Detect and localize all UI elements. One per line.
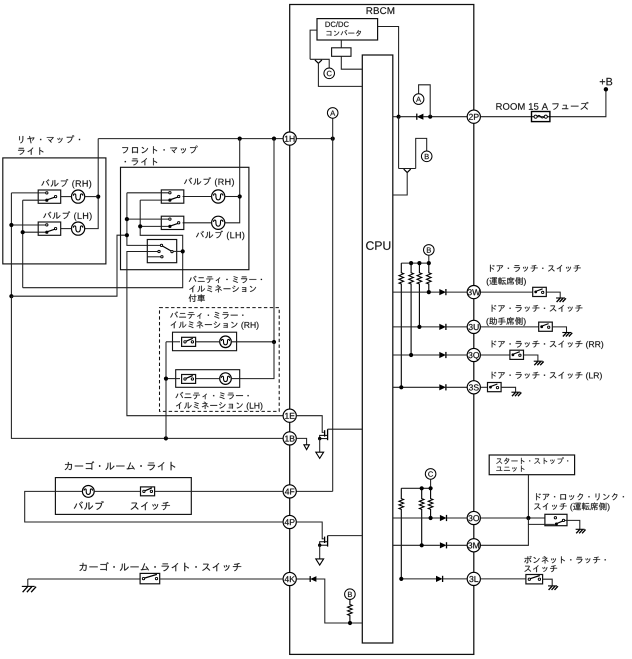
wire 3L to switch [480, 578, 526, 580]
wire front LH bottom [140, 225, 168, 227]
resistor R3 [417, 263, 422, 327]
pin 3O [467, 511, 480, 524]
cargo room light switch [140, 573, 160, 583]
bulb LH label [43, 211, 91, 221]
wire lock switch to gnd [565, 520, 580, 529]
junction [526, 516, 530, 520]
junction [429, 516, 433, 520]
vanity LH unit box [176, 370, 240, 388]
resistor R6 [419, 488, 424, 545]
cargo lamp box [55, 478, 191, 515]
arrow into CPU supply [315, 60, 319, 63]
ground [534, 360, 543, 362]
latch switch label 4 [492, 372, 602, 381]
start stop unit box [489, 455, 574, 475]
rear switch RH [38, 190, 61, 203]
wire switch to 4K [160, 578, 283, 580]
junction [272, 340, 276, 344]
wire switch to gnd [546, 292, 560, 298]
rear bottoms wire down [22, 200, 24, 288]
diode D5 [417, 114, 424, 120]
wire rear tops to front [11, 235, 127, 296]
junction [238, 137, 242, 141]
lamp supply vertical wire [332, 139, 334, 492]
pin 4F [283, 485, 296, 498]
rail [401, 487, 430, 489]
door lock link contacts [554, 517, 556, 519]
cargo lamp label [65, 461, 176, 470]
junction [409, 353, 413, 357]
wire arrow to CPU [318, 63, 362, 87]
vanity RH bulb [220, 336, 232, 348]
arrow into CPU [404, 169, 408, 173]
front bottoms wire [140, 200, 183, 251]
resistor R2 [409, 263, 414, 355]
wire arrow to CPU [393, 172, 407, 195]
wire node to diode [399, 116, 417, 118]
cargo switch label [131, 502, 170, 510]
wire switch RH bottom [23, 199, 46, 201]
cargo bulb [82, 486, 94, 498]
wire 1B right [296, 438, 306, 444]
arrow out 1B [304, 445, 309, 450]
ground [556, 297, 565, 299]
rear bulb LH [72, 222, 85, 235]
start stop label1 [496, 457, 568, 464]
door lock link label2 [534, 503, 610, 512]
junction [125, 233, 129, 237]
CPU label [366, 241, 390, 250]
start stop label2 [496, 466, 524, 472]
front map light box [121, 167, 249, 269]
vanity label with-vehicle 3 [189, 294, 205, 302]
wire switch to gnd [524, 355, 538, 361]
wire Q2 source down [319, 545, 321, 559]
CPU box [362, 55, 393, 643]
wire front LH top [127, 218, 169, 220]
latch switch label 2b [487, 317, 526, 326]
wire SW3 out [173, 250, 183, 252]
wire switch to gnd [552, 327, 566, 333]
arrow out Q1 [316, 452, 324, 458]
wire vanity right loop [240, 342, 274, 379]
rear bulb RH [72, 190, 85, 203]
pin 3S [467, 381, 480, 394]
wire vanity RH right [231, 341, 274, 343]
cargo bulb label [74, 501, 104, 510]
mosfet Q1 gate bar [324, 430, 326, 436]
rear switch LH [38, 222, 61, 235]
RBCM label [367, 7, 395, 14]
resistor R8 [348, 600, 353, 624]
wire 3S to switch [480, 386, 487, 388]
wire SW3 bottom stub [147, 256, 160, 258]
junction [399, 385, 403, 389]
wire front RH bottom [140, 199, 168, 201]
vanity RH label1 [170, 311, 243, 318]
node A [413, 94, 424, 105]
junction [429, 486, 433, 490]
pin 4P [283, 515, 296, 528]
wire DC/DC bottom to choke [340, 40, 342, 48]
wire 3O to switch [480, 517, 545, 519]
vanity RH label2 [171, 321, 259, 330]
wire 1E to gate [296, 416, 324, 433]
junction [138, 224, 142, 228]
node B loop wire [416, 138, 427, 168]
mosfet Q2 drain wire [328, 535, 363, 537]
wire rear tops to 1B [11, 296, 283, 438]
latch switch label 3 [492, 341, 604, 350]
wire front RH top [127, 192, 169, 194]
diode D9 [436, 576, 443, 582]
wire 4F to supply line [296, 490, 332, 492]
door lock link switch box [545, 514, 567, 525]
wire Q1 source down [319, 439, 321, 453]
vanity LH label2 [176, 402, 262, 411]
junction [348, 621, 352, 625]
mosfet Q1 drain wire [328, 428, 363, 430]
wire cargo to 4F [155, 490, 284, 492]
wire DC/DC right down [378, 27, 399, 117]
bonnet latch switch [526, 575, 543, 584]
DC/DC label line2 [327, 30, 362, 36]
wire 3M loop [480, 524, 528, 545]
wire B to rail [428, 255, 430, 263]
wire 3Q to switch [480, 354, 510, 356]
junction [427, 261, 431, 265]
pin 2P [467, 110, 480, 123]
fuse label [496, 102, 588, 110]
wire 3U row [393, 326, 440, 328]
fuse ROOM 15A [532, 112, 550, 122]
diode D1 [439, 289, 446, 295]
wire 2P to +B [480, 89, 606, 116]
wire bulb LH lead [61, 228, 72, 230]
vanity left wire down [165, 342, 167, 439]
bonnet latch label1 [524, 556, 606, 564]
door switch SW3 box [147, 240, 176, 263]
DC/DC converter U2 [317, 19, 378, 40]
wire vanity LH right [231, 378, 240, 380]
rear map light label1 [19, 135, 80, 143]
wire start stop down [527, 475, 529, 518]
ground [562, 332, 571, 334]
wire switch LH top [11, 224, 45, 226]
wire diode down to CPU [316, 579, 362, 623]
front switch RH [161, 190, 184, 203]
junction [238, 194, 242, 198]
mosfet Q1 source [320, 435, 328, 438]
junction [420, 543, 424, 547]
pin 3M [467, 539, 480, 552]
wire switch RH top [11, 192, 45, 194]
diode D7 [440, 515, 447, 521]
pin 1B [283, 432, 296, 445]
cargo switch label row [79, 562, 241, 571]
vanity feed wire [273, 139, 275, 342]
wire bonnet to gnd [543, 579, 553, 586]
junction [9, 223, 13, 227]
wire to arrow [399, 168, 416, 170]
wire vanity LH left [166, 378, 180, 380]
mosfet Q2 gate bar [324, 537, 326, 543]
front bulb LH label [196, 231, 244, 241]
diode D3 [439, 352, 446, 358]
vanity RH switch [182, 337, 196, 346]
junction [164, 377, 168, 381]
wire diode to 3L [443, 578, 468, 580]
wire bulb RH leads [85, 196, 99, 198]
wire 1H left [98, 138, 283, 140]
junction [272, 137, 276, 141]
front switch LH [161, 216, 184, 229]
wire cargo to 4P [25, 491, 283, 522]
junction [125, 217, 129, 221]
DC/DC label line1 [326, 21, 349, 27]
door lock link label1 [536, 493, 624, 500]
vanity LH bulb [220, 373, 232, 385]
wire diode to 3W [446, 291, 467, 293]
wire switch to gnd [501, 387, 515, 392]
ground [548, 585, 557, 587]
node C [324, 68, 335, 79]
+B terminal [604, 87, 608, 91]
junction [417, 325, 421, 329]
wire diode to 3U [446, 326, 467, 328]
wire choke to CPU [341, 56, 362, 69]
wire switch LH bottom [23, 231, 46, 233]
diode D6 [310, 576, 316, 582]
resistor R1 [399, 263, 404, 387]
wire cargo inner [94, 490, 140, 492]
rear tops wire down [10, 193, 12, 296]
door latch switch LR [488, 383, 502, 392]
wire CPU to diode node [393, 116, 399, 118]
diode D4 [439, 384, 446, 390]
node A stub [332, 118, 334, 138]
node B [345, 589, 356, 600]
wire 3U to switch [480, 326, 538, 328]
wire 3Q row [393, 354, 440, 356]
junction [428, 115, 432, 119]
vanity label with-vehicle 1 [189, 276, 262, 283]
door switch SW3 contacts [160, 244, 162, 246]
resistor R4 [427, 263, 432, 292]
pin 3Q [467, 348, 480, 361]
wire supply down to rear bulbs [85, 139, 99, 229]
wire to node C [310, 59, 329, 68]
wire ground to switch [28, 578, 140, 580]
wire SW3 mid to 1E [127, 252, 283, 416]
junction [181, 249, 185, 253]
choke L1 [332, 48, 351, 57]
wire node down [398, 117, 400, 169]
junction [331, 137, 335, 141]
RBCM module box [290, 5, 474, 655]
junction [427, 290, 431, 294]
wire 3M row [393, 544, 440, 546]
pin 3L [467, 572, 480, 585]
rail [401, 262, 429, 264]
node B [421, 151, 432, 162]
mosfet Q2 source [320, 542, 328, 545]
cargo switch [141, 487, 155, 496]
junction [21, 230, 25, 234]
junction [397, 115, 401, 119]
wire diode to 3M [447, 544, 468, 546]
front bulb RH [212, 190, 225, 203]
wire 4P to gate [296, 522, 324, 539]
vanity LH label1 [176, 392, 249, 399]
mosfet Q2 channel bar [327, 536, 329, 547]
front map light label2 [125, 158, 158, 165]
wire front bulb RH leads [225, 196, 240, 198]
wire diode to 3Q [446, 354, 467, 356]
pin 1H [283, 132, 296, 145]
pin 4K [283, 572, 296, 585]
junction [9, 294, 13, 298]
wire C to rail [430, 479, 432, 488]
vanity LH switch [182, 375, 196, 384]
front map light label1 [122, 146, 197, 154]
pin 1E [283, 409, 296, 422]
door latch switch RR [510, 350, 524, 359]
wire supply down front bulbs [225, 139, 240, 223]
junction [399, 577, 403, 581]
rear map light label2 [18, 147, 43, 154]
wire 3W to switch [480, 291, 532, 293]
diode D2 [439, 324, 446, 330]
diode D8 [440, 542, 447, 548]
node A [327, 108, 338, 119]
wire 4K right [296, 578, 310, 580]
wire diode to 3S [446, 386, 467, 388]
node B [424, 245, 435, 256]
ground [576, 528, 585, 530]
vanity label with-vehicle 2 [189, 285, 256, 292]
wire loop to node A [419, 85, 431, 117]
latch switch label 1b [487, 277, 526, 286]
wire 1H to junction [296, 138, 332, 140]
pin 3W [467, 286, 480, 299]
pin 3U [467, 320, 480, 333]
junction [420, 486, 424, 490]
latch switch label 1a [490, 265, 581, 272]
mosfet Q1 channel bar [327, 429, 329, 440]
wire 3W row [393, 291, 440, 293]
front tops wire [127, 193, 160, 246]
resistor R7 [428, 488, 433, 518]
wire vanity RH left [166, 341, 180, 343]
ground [511, 391, 520, 393]
wire vanity RH inner [196, 341, 220, 343]
rear map light box [3, 158, 106, 264]
node C [425, 469, 436, 480]
bulb RH label [41, 179, 91, 189]
vanity RH unit box [173, 332, 237, 351]
wire vanity LH inner [196, 378, 220, 380]
wire DC/DC left down [310, 30, 317, 59]
wire switch bottom loop [528, 518, 555, 524]
junction [417, 261, 421, 265]
junction [164, 436, 168, 440]
door latch switch driver [533, 287, 547, 296]
wire 3O row [393, 517, 440, 519]
ground [27, 579, 29, 586]
vanity dashed box [160, 308, 280, 412]
wire diode to 2P [423, 116, 467, 118]
junction [409, 261, 413, 265]
latch switch label 2a [492, 305, 583, 312]
wire diode to 3O [447, 517, 468, 519]
arrow out Q2 [316, 559, 324, 565]
front bulb RH label [184, 177, 234, 187]
wire 3S row [393, 386, 440, 388]
junction [96, 195, 100, 199]
door latch switch passenger [539, 322, 553, 331]
wire 3L row [401, 578, 436, 580]
bonnet latch label2 [524, 565, 557, 572]
resistor R5 [399, 488, 404, 579]
wire front bulb LH lead [183, 222, 212, 224]
wire rear bottoms right [23, 251, 183, 287]
front bulb LH [212, 216, 225, 229]
